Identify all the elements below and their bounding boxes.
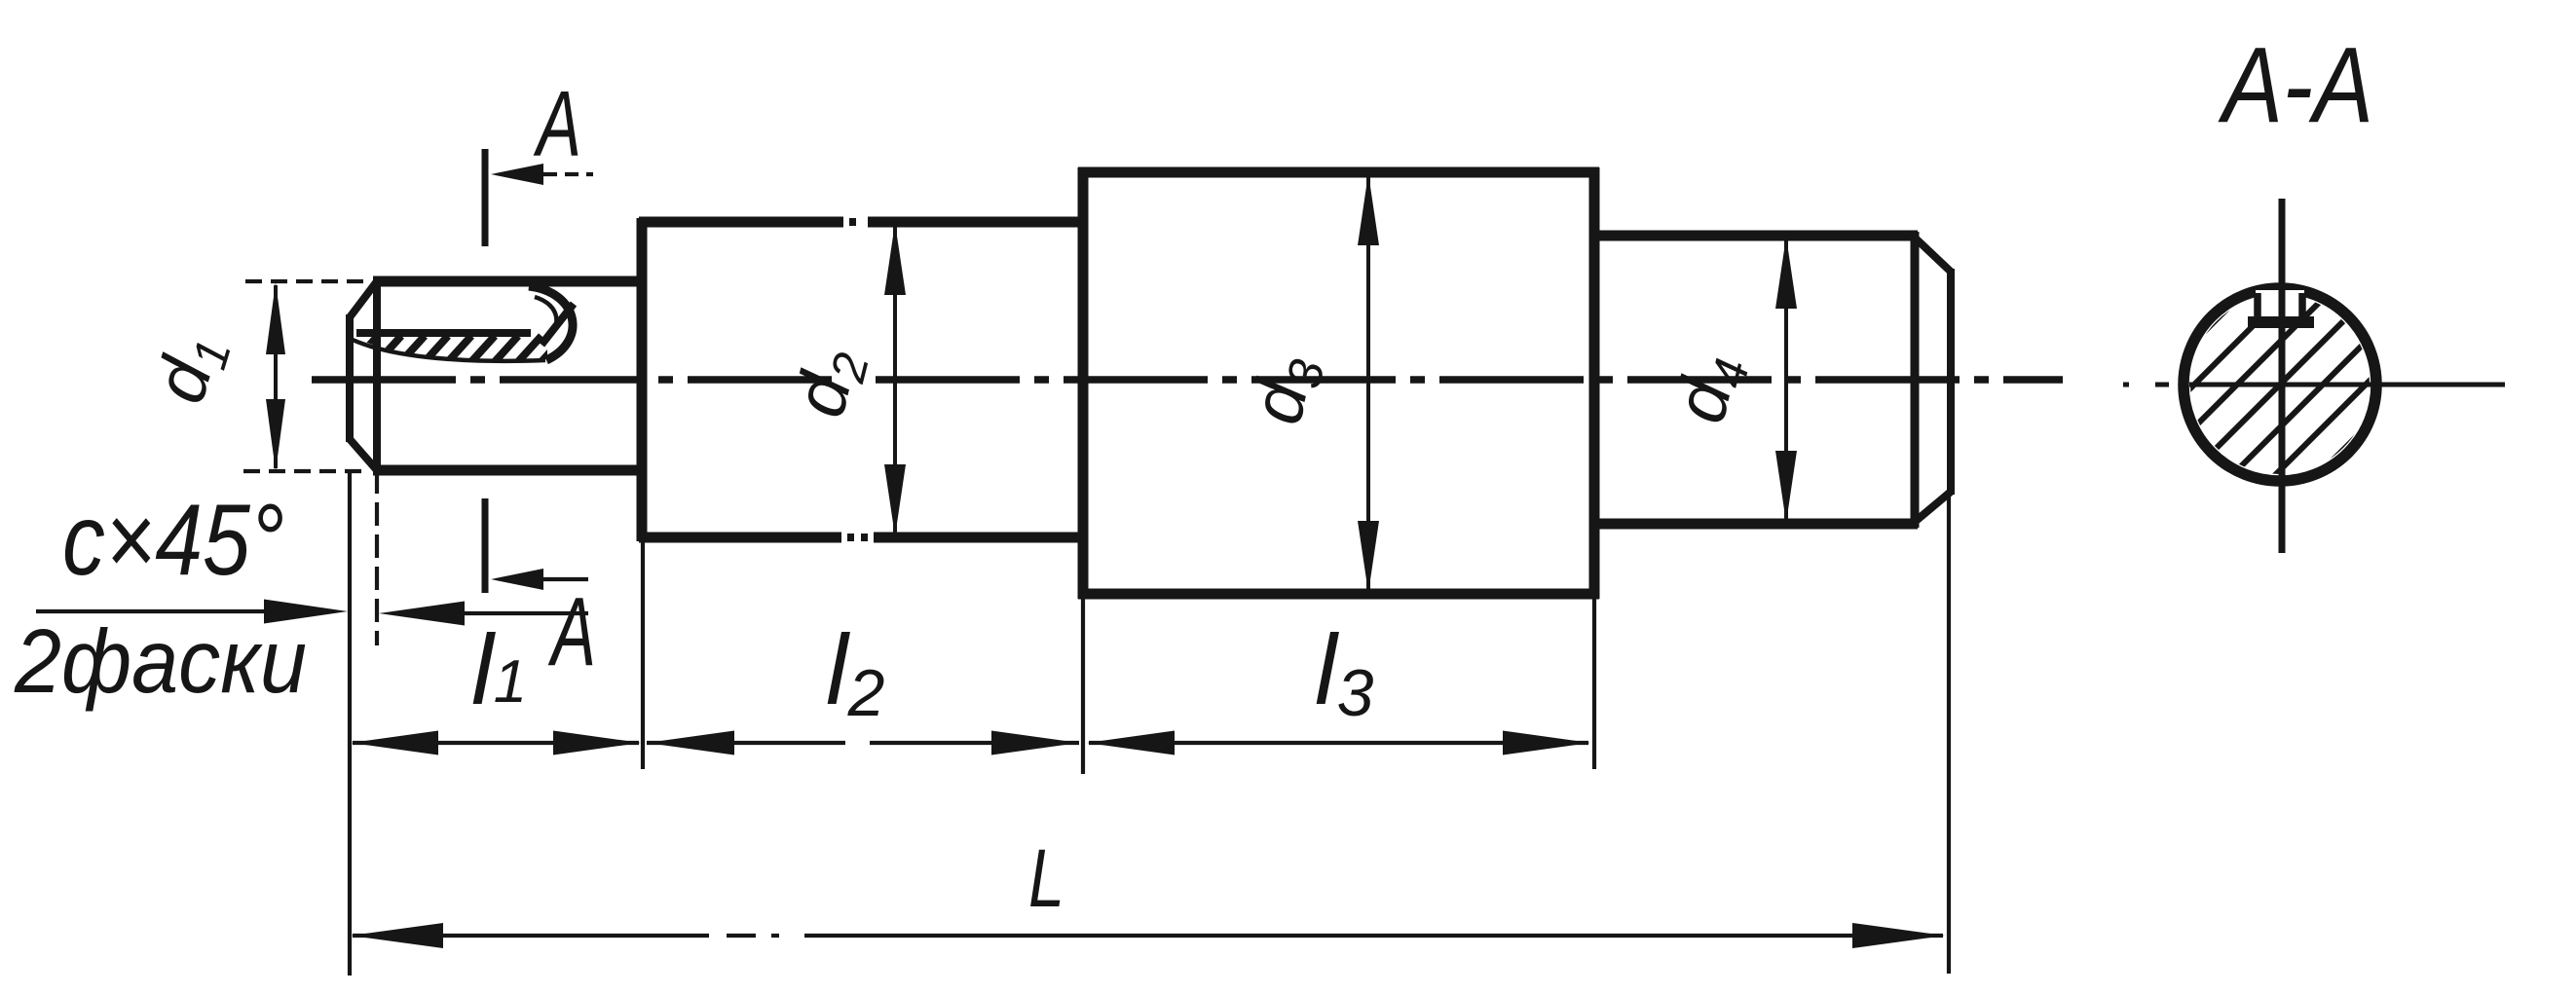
d2 bottom arrowhead <box>884 464 906 536</box>
wire right end face of shaft <box>1947 269 1955 495</box>
section plane A upper cutting mark <box>482 149 489 246</box>
section plane A upper arrow <box>491 164 543 185</box>
chamfer width dimension arrow (outside) <box>379 602 465 626</box>
section A-A vertical centerline <box>2279 199 2286 553</box>
L right arrowhead <box>1852 923 1945 948</box>
d4 bottom arrowhead <box>1775 451 1797 523</box>
l3 dimension line <box>1089 741 1588 745</box>
d1 bottom extension line (dashed) <box>243 469 362 473</box>
wire shaft section 4 top edge <box>1591 231 1918 241</box>
wire right top chamfer edge <box>1915 238 1951 272</box>
section plane A lower cutting mark <box>482 498 489 593</box>
wire centerline of shaft (dash-dot axis) <box>312 376 456 384</box>
extension line from step 2-3 (for l2/l3) <box>1081 598 1085 774</box>
extension line from left end face (for c, l1, L) <box>348 470 352 976</box>
extension line from step 3-4 (for l3) <box>1592 599 1596 769</box>
extension line from chamfer edge (for c) <box>375 470 379 645</box>
wire shaft section 3 top edge <box>1078 167 1599 178</box>
section A-A hatching <box>1946 265 2576 504</box>
wire shaft section 2 bottom edge <box>639 533 841 543</box>
d1 top arrowhead <box>266 282 285 354</box>
wire left end face of shaft <box>346 314 354 442</box>
wire shaft section 3 bottom edge <box>1078 589 1599 600</box>
l2 left arrowhead <box>647 731 734 755</box>
svg-text:A-A: A-A <box>2218 25 2373 145</box>
l1 dimension line <box>353 741 639 745</box>
wire right chamfer inner edge (full diameter line) <box>1911 232 1920 528</box>
l3 left arrowhead <box>1087 731 1175 755</box>
wire break line of local section (curved) <box>353 340 545 361</box>
wire keyway slot bottom edge (side view) <box>356 329 531 337</box>
chamfer width dimension tail line <box>465 611 588 615</box>
wire step face between section 2 and 3 <box>1078 167 1089 599</box>
svg-text:c×45°: c×45° <box>62 484 284 597</box>
d1 bottom arrowhead <box>266 399 285 471</box>
d2 top arrowhead <box>884 223 906 295</box>
wire shaft section 2 top edge <box>639 217 843 228</box>
L dimension line <box>353 934 709 938</box>
section A-A keyway slot <box>2256 290 2304 321</box>
wire chamfer inner edge (full diameter line) <box>373 278 381 473</box>
d3 top arrowhead <box>1358 173 1379 245</box>
svg-text:A: A <box>548 577 596 686</box>
svg-text:L: L <box>1028 832 1064 924</box>
wire right bottom chamfer edge <box>1915 492 1951 522</box>
wire left bottom chamfer edge <box>350 439 377 470</box>
section A-A shaft circle <box>2184 288 2376 481</box>
section plane A lower arrow tail <box>543 577 588 581</box>
extension line from right end face (for L) <box>1947 495 1951 974</box>
d3 value label (rotated) <box>1235 348 1334 431</box>
l2 dimension line <box>647 741 845 745</box>
wire left top chamfer edge <box>350 281 377 317</box>
l1 right arrowhead <box>553 731 641 755</box>
wire step face between section 1 and 2 <box>637 218 648 541</box>
d1 value label (rotated) <box>138 323 242 413</box>
l2 right arrowhead <box>991 731 1079 755</box>
d4 value label (rotated) <box>1659 346 1760 432</box>
section plane A upper arrow tail <box>543 172 593 176</box>
d3 dimension line <box>1366 176 1370 590</box>
svg-text:A: A <box>533 72 581 176</box>
wire shaft section 4 bottom edge <box>1591 519 1918 530</box>
l1 left arrowhead <box>351 731 438 755</box>
leader shelf line of chamfer callout <box>36 609 284 613</box>
svg-text:2фаски: 2фаски <box>14 610 307 712</box>
d4 dimension line <box>1784 239 1788 520</box>
d1 dimension line <box>274 285 278 468</box>
wire shaft section 1 bottom edge <box>373 465 642 476</box>
extension line from step 1-2 (for l1/l2) <box>641 541 645 769</box>
section plane A lower arrow <box>491 569 543 590</box>
section A-A horizontal centerline <box>2123 383 2129 387</box>
d2 value label (rotated) <box>778 340 879 426</box>
wire keyway rounded end outer arc <box>529 286 573 360</box>
wire step face between section 3 and 4 <box>1589 167 1600 599</box>
d2 dimension line <box>893 226 897 534</box>
d4 top arrowhead <box>1775 237 1797 309</box>
d3 bottom arrowhead <box>1358 521 1379 593</box>
L left arrowhead <box>351 923 443 948</box>
wire keyway rounded end inner arc <box>535 297 556 343</box>
d1 top extension line (dashed) <box>245 279 370 283</box>
wire hatch stroke inside keyway end <box>541 304 574 345</box>
wire shaft section 1 top edge <box>373 276 642 287</box>
l3 right arrowhead <box>1503 731 1590 755</box>
chamfer callout leader arrowhead <box>264 600 348 624</box>
